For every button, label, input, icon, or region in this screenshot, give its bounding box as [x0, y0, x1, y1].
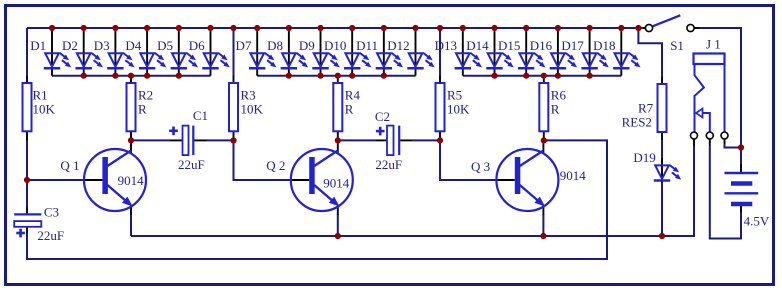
svg-text:D11: D11 — [356, 38, 378, 53]
svg-text:R: R — [138, 102, 147, 117]
svg-text:R4: R4 — [345, 88, 361, 103]
svg-text:D13: D13 — [435, 38, 457, 53]
svg-text:10K: 10K — [447, 102, 470, 117]
svg-text:Q 3: Q 3 — [471, 159, 490, 174]
svg-text:Q 1: Q 1 — [60, 158, 79, 173]
svg-text:D3: D3 — [94, 38, 110, 53]
svg-text:C2: C2 — [375, 109, 390, 124]
svg-text:4.5V: 4.5V — [744, 214, 770, 229]
svg-text:10K: 10K — [33, 102, 56, 117]
svg-text:9014: 9014 — [118, 173, 145, 188]
svg-text:22uF: 22uF — [178, 157, 205, 172]
svg-text:R3: R3 — [241, 88, 256, 103]
svg-text:R: R — [345, 102, 354, 117]
svg-text:R1: R1 — [33, 88, 48, 103]
svg-text:D12: D12 — [387, 38, 409, 53]
svg-text:22uF: 22uF — [37, 228, 64, 243]
svg-text:22uF: 22uF — [375, 157, 402, 172]
svg-text:D5: D5 — [157, 38, 173, 53]
svg-text:D7: D7 — [236, 38, 252, 53]
svg-text:D10: D10 — [324, 38, 346, 53]
svg-text:D8: D8 — [267, 38, 283, 53]
svg-text:D4: D4 — [125, 38, 141, 53]
svg-text:R2: R2 — [138, 88, 153, 103]
svg-text:RES2: RES2 — [622, 115, 652, 130]
svg-text:R: R — [551, 102, 560, 117]
svg-text:Q 2: Q 2 — [266, 158, 285, 173]
svg-text:R7: R7 — [638, 101, 654, 116]
svg-text:C3: C3 — [44, 204, 59, 219]
svg-text:D14: D14 — [466, 38, 489, 53]
svg-text:D17: D17 — [561, 38, 584, 53]
svg-text:C1: C1 — [193, 108, 208, 123]
svg-text:10K: 10K — [241, 102, 264, 117]
svg-text:D2: D2 — [62, 38, 78, 53]
svg-text:9014: 9014 — [560, 168, 587, 183]
svg-text:D18: D18 — [593, 38, 615, 53]
svg-text:R6: R6 — [551, 88, 567, 103]
svg-text:D6: D6 — [189, 38, 205, 53]
svg-text:D15: D15 — [498, 38, 520, 53]
svg-text:D19: D19 — [633, 150, 655, 165]
svg-text:D9: D9 — [299, 38, 315, 53]
svg-text:D1: D1 — [30, 38, 46, 53]
svg-text:J 1: J 1 — [706, 37, 721, 52]
svg-text:9014: 9014 — [323, 175, 350, 190]
svg-text:D16: D16 — [530, 38, 553, 53]
svg-text:S1: S1 — [670, 38, 684, 53]
svg-text:R5: R5 — [447, 88, 462, 103]
